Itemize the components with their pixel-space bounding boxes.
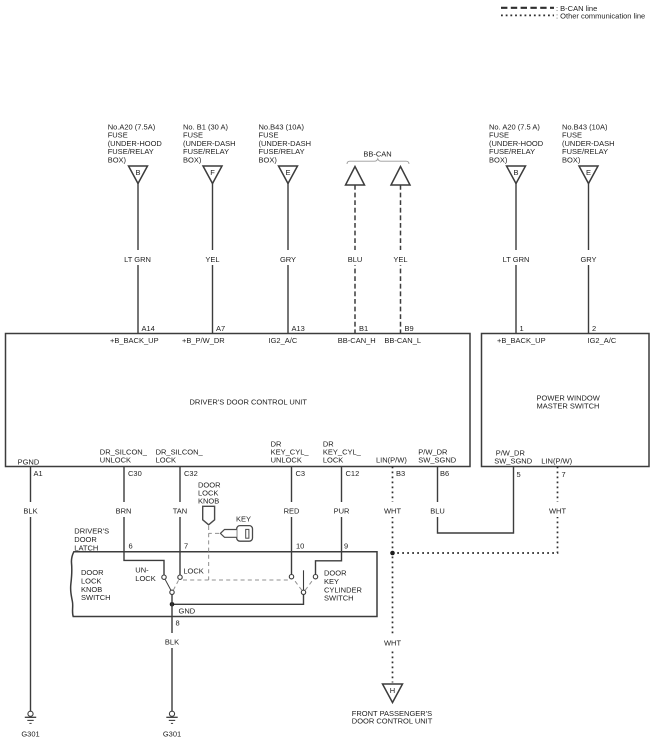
connector B (fuse 4): [507, 166, 526, 184]
svg-text:A13: A13: [292, 324, 305, 333]
svg-text:WHT: WHT: [549, 507, 566, 516]
terminal P/W_DR SW_SGND (B6): [418, 448, 457, 465]
svg-text:GND: GND: [179, 607, 196, 616]
terminal DR KEY_CYL_LOCK (C12): [323, 440, 362, 465]
svg-text:SWITCH: SWITCH: [81, 593, 111, 602]
svg-text:UNLOCK: UNLOCK: [271, 456, 302, 465]
svg-text:A14: A14: [142, 324, 155, 333]
door key cylinder switch contacts: [289, 570, 317, 594]
svg-text:LATCH: LATCH: [74, 543, 98, 552]
svg-text:C30: C30: [128, 469, 142, 478]
terminal DR_SILCON_LOCK (C32): [156, 448, 204, 465]
svg-text:5: 5: [517, 470, 521, 479]
svg-text:B6: B6: [440, 469, 449, 478]
junction LIN node: [390, 551, 395, 556]
svg-text:C32: C32: [184, 469, 198, 478]
wire PUR pin C12 to latch pin 9: [316, 467, 360, 575]
legend other communication line: [501, 12, 645, 21]
fuse F1 label No.A20 (7.5 A): [108, 123, 163, 165]
label door key cylinder switch: [324, 569, 363, 603]
svg-text:1: 1: [520, 324, 524, 333]
wire LT GRN to pin 1: [498, 184, 534, 334]
label door lock knob: [198, 481, 221, 506]
svg-text:BOX): BOX): [489, 155, 508, 164]
svg-text:WHT: WHT: [384, 507, 401, 516]
wire BLK latch pin 8 to ground: [158, 595, 186, 712]
label UN-LOCK: [135, 566, 155, 584]
terminal DR KEY_CYL_UNLOCK (C3): [271, 440, 310, 465]
svg-text:G301: G301: [21, 730, 39, 739]
svg-text:YEL: YEL: [205, 255, 219, 264]
svg-text:MASTER SWITCH: MASTER SWITCH: [537, 402, 600, 411]
linkage key dashed: [209, 532, 219, 534]
wire WHT LIN dotted pin B3 to connector H: [378, 467, 407, 683]
svg-text:DOOR CONTROL UNIT: DOOR CONTROL UNIT: [352, 717, 433, 726]
fuse F5 label No.B43 (10A) right: [562, 123, 615, 165]
svg-text:BLU: BLU: [348, 255, 363, 264]
svg-text:LOCK: LOCK: [156, 456, 176, 465]
svg-text:BOX): BOX): [183, 155, 202, 164]
svg-text:YEL: YEL: [393, 255, 407, 264]
svg-text:BOX): BOX): [259, 155, 278, 164]
svg-text:G301: G301: [163, 730, 181, 739]
svg-text:B9: B9: [405, 324, 414, 333]
connector BB-CAN high: [346, 167, 365, 186]
label door lock knob switch: [81, 568, 111, 602]
terminal P/W_DR SW_SGND (5): [494, 449, 533, 466]
connector H front passenger's door control unit: [352, 684, 433, 726]
power window master switch box: [482, 334, 650, 467]
svg-text:PGND: PGND: [18, 458, 40, 467]
svg-text:TAN: TAN: [173, 507, 187, 516]
svg-text:C12: C12: [346, 469, 360, 478]
wire BLU BB-CAN_H dashed to pin B1: [341, 185, 369, 334]
svg-text:RED: RED: [284, 507, 300, 516]
wire LT GRN to pin A14: [120, 184, 156, 334]
linkage knob dashed: [208, 526, 210, 580]
svg-text:SW_SGND: SW_SGND: [494, 457, 533, 466]
svg-text:E: E: [285, 168, 290, 177]
svg-text:IG2_A/C: IG2_A/C: [269, 336, 298, 345]
svg-text:+B_BACK_UP: +B_BACK_UP: [497, 336, 546, 345]
svg-text:UNLOCK: UNLOCK: [100, 456, 131, 465]
svg-text:SWITCH: SWITCH: [324, 594, 354, 603]
svg-text:IG2_A/C: IG2_A/C: [588, 336, 617, 345]
svg-text:BOX): BOX): [108, 155, 127, 164]
svg-text:BB-CAN: BB-CAN: [363, 150, 391, 159]
wire YEL to pin A7: [199, 184, 226, 334]
svg-text:A1: A1: [34, 469, 43, 478]
junction GND node: [170, 602, 175, 607]
svg-text:LT GRN: LT GRN: [124, 255, 151, 264]
wire GND common: [172, 595, 304, 616]
driver's door latch box: [71, 552, 377, 617]
svg-text:BLK: BLK: [23, 507, 37, 516]
wire BRN pin C30 to latch pin 6: [110, 467, 164, 576]
label driver's door latch: [74, 527, 109, 553]
svg-text:B: B: [135, 168, 140, 177]
linkage switches dashed: [183, 579, 289, 581]
fuse F2 label No. B1 (30 A): [183, 123, 236, 165]
svg-text:10: 10: [296, 542, 304, 551]
svg-text:7: 7: [184, 542, 188, 551]
svg-text:LOCK: LOCK: [183, 567, 203, 576]
connector BB-CAN low: [391, 167, 410, 186]
svg-text:LOCK: LOCK: [135, 574, 155, 583]
svg-text:C3: C3: [296, 469, 306, 478]
svg-text:BLU: BLU: [430, 507, 445, 516]
connector E (fuse 5): [579, 166, 598, 184]
svg-text:SW_SGND: SW_SGND: [418, 456, 457, 465]
svg-text:+B_P/W_DR: +B_P/W_DR: [182, 336, 225, 345]
svg-text:BB-CAN_L: BB-CAN_L: [384, 336, 421, 345]
svg-text:GRY: GRY: [280, 255, 296, 264]
svg-text:WHT: WHT: [384, 639, 401, 648]
ground G301 right: [163, 711, 181, 738]
svg-text:KNOB: KNOB: [198, 497, 219, 506]
fuse F3 label No.B43 (10A): [259, 123, 312, 165]
svg-text:LIN(P/W): LIN(P/W): [376, 456, 407, 465]
fuse F4 label No. A20 (7.5 A) right: [489, 123, 544, 165]
svg-text:E: E: [586, 168, 591, 177]
driver's door control unit box: [6, 334, 471, 467]
svg-text:8: 8: [176, 619, 180, 628]
wire BLK PGND pin A1 to ground: [16, 467, 45, 712]
connector E (fuse 3): [279, 166, 298, 184]
svg-text:LOCK: LOCK: [323, 456, 343, 465]
svg-text:+B_BACK_UP: +B_BACK_UP: [110, 336, 159, 345]
svg-text:DRIVER'S DOOR CONTROL UNIT: DRIVER'S DOOR CONTROL UNIT: [190, 398, 308, 407]
door lock knob switch contacts: [162, 575, 182, 595]
svg-text:A7: A7: [216, 324, 225, 333]
svg-text:PUR: PUR: [334, 507, 350, 516]
ground G301 left: [21, 711, 39, 738]
wire BLU pin B6 to switch pin 5: [424, 467, 521, 534]
svg-text:2: 2: [592, 324, 596, 333]
wire GRY to pin 2: [574, 184, 602, 334]
svg-text:F: F: [210, 168, 215, 177]
key symbol: [220, 515, 252, 542]
BB-CAN bracket label: [347, 150, 409, 165]
svg-text:: Other communication line: : Other communication line: [556, 12, 645, 21]
svg-text:KEY: KEY: [236, 515, 251, 524]
svg-text:BB-CAN_H: BB-CAN_H: [338, 336, 376, 345]
wire WHT LIN dotted pin 7 to junction: [393, 467, 573, 554]
svg-text:BOX): BOX): [562, 155, 581, 164]
legend B-CAN line: [501, 4, 597, 13]
svg-text:BLK: BLK: [165, 638, 179, 647]
connector B (fuse 1): [129, 166, 148, 184]
wire YEL BB-CAN_L dashed to pin B9: [387, 185, 414, 334]
wire GRY to pin A13: [274, 184, 305, 334]
svg-text:GRY: GRY: [580, 255, 596, 264]
wire TAN pin C32 to latch pin 7: [166, 467, 198, 576]
svg-text:BRN: BRN: [116, 507, 132, 516]
svg-text:B1: B1: [359, 324, 368, 333]
svg-text:LIN(P/W): LIN(P/W): [541, 457, 572, 466]
door lock knob symbol: [203, 506, 215, 525]
wire RED pin C3 to latch pin 10: [277, 467, 305, 575]
connector F (fuse 2): [203, 166, 222, 184]
svg-text:B: B: [513, 168, 518, 177]
svg-text:9: 9: [344, 542, 348, 551]
svg-text:B3: B3: [396, 469, 405, 478]
svg-text:H: H: [390, 686, 395, 695]
svg-text:7: 7: [562, 470, 566, 479]
svg-text:LT GRN: LT GRN: [503, 255, 530, 264]
svg-text:6: 6: [129, 542, 133, 551]
terminal DR_SILCON_UNLOCK (C30): [100, 448, 148, 465]
